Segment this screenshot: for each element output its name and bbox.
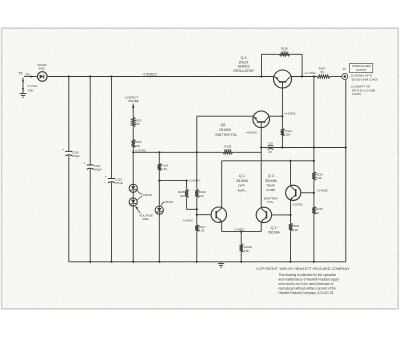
svg-text:COPYRIGHT 1959 BY HEWLETT-PACK: COPYRIGHT 1959 BY HEWLETT-PACKARD COMPAN… (256, 267, 350, 271)
node +2.6 branch (158, 180, 160, 182)
transformer winding 6.3VAC (22, 78, 38, 93)
svg-text:GRY: GRY (25, 73, 31, 76)
wire divider upper (313, 77, 315, 172)
svg-text:470µF: 470µF (72, 154, 80, 158)
node +2.6VDC (186, 180, 188, 182)
svg-text:2N169A: 2N169A (219, 128, 232, 132)
ghost bleed-through (140, 40, 360, 300)
svg-text:-1.4VDC: -1.4VDC (234, 227, 245, 231)
label R204 (292, 224, 299, 232)
label Q2 caption (268, 226, 281, 235)
svg-text:3.3K: 3.3K (199, 229, 205, 233)
label -1.4VDC (234, 227, 245, 231)
node Q5 emitter (281, 115, 283, 117)
label R113 (286, 129, 293, 137)
label Q4 caption (233, 56, 254, 73)
wire Q2 emitter down (260, 222, 262, 231)
svg-text:220: 220 (180, 194, 185, 198)
wire node to R108 (186, 181, 188, 190)
label C152 (115, 178, 123, 186)
node ground rail x290.5 (289, 261, 291, 263)
svg-text:FOL.: FOL. (267, 200, 274, 204)
node Q2 base - Q3 emitter (289, 214, 291, 216)
node Q3 collector top (289, 160, 291, 162)
node Q1 base node (196, 214, 198, 216)
svg-text:COMP.: COMP. (266, 188, 276, 192)
svg-text:+: + (83, 162, 85, 166)
resistor R106 bypass bridge (262, 53, 303, 77)
wire top rail +7.6VADC (47, 76, 342, 78)
label Q1 caption (236, 174, 249, 192)
capacitor C25 (268, 142, 274, 154)
wire R215 to ground rail (313, 214, 315, 262)
svg-text:-3.4VDC: -3.4VDC (182, 218, 193, 222)
svg-text:DIFF.: DIFF. (238, 184, 246, 188)
resistor R215 (312, 207, 315, 215)
wire column C152 (111, 77, 113, 262)
svg-text:ment and is not to be used oth: ment and is not to be used otherwise or (279, 282, 334, 286)
svg-text:EMITTER FOL.: EMITTER FOL. (215, 133, 238, 137)
wire Q1 emitter down (221, 222, 223, 232)
node +3.4VDC (313, 192, 315, 194)
wire R214-R215 (313, 180, 315, 206)
node rail-C150 (68, 75, 70, 77)
wire to R113 (281, 116, 283, 128)
svg-text:3.3K: 3.3K (292, 228, 298, 232)
capacitor C151 (83, 162, 93, 170)
svg-text:50: 50 (283, 50, 287, 54)
node divider mid (313, 146, 315, 148)
resistor R108 (185, 189, 188, 197)
label +3.4VDC (316, 189, 328, 193)
resistor R104 (158, 163, 161, 170)
note 2 signal (351, 74, 378, 82)
svg-text:REGULATOR: REGULATOR (233, 69, 254, 73)
svg-text:470µF: 470µF (115, 181, 123, 185)
svg-text:+4.8VDC: +4.8VDC (245, 131, 257, 135)
transistor Q5 (253, 111, 270, 128)
label CR101 (161, 200, 174, 206)
wire to R100A (240, 232, 242, 244)
wire R100A to ground rail (240, 252, 242, 262)
svg-text:T5: T5 (18, 72, 22, 76)
svg-text:+: + (105, 175, 107, 179)
svg-text:OIDAR TSET ROTALLICSO YCNEUQER: OIDAR TSET ROTALLICSO YCNEUQERF (145, 40, 340, 47)
wire Q5 base feed (197, 115, 253, 117)
label copyright header (256, 267, 350, 271)
wire R109 bottom (196, 198, 198, 225)
label R108 (178, 190, 185, 198)
wire detect probe arrow (132, 104, 135, 118)
svg-text:TEMP.: TEMP. (266, 184, 275, 188)
svg-text:+: + (62, 148, 64, 152)
node ref-R109 (196, 151, 198, 153)
transistor Q3 (286, 185, 301, 200)
svg-text:15K: 15K (286, 132, 291, 136)
node Q4 emitter-bridge (301, 75, 303, 77)
svg-text:220: 220 (199, 194, 204, 198)
svg-text:1K: 1K (316, 211, 320, 215)
label R203 (135, 140, 142, 148)
svg-text:Q 2: Q 2 (271, 226, 277, 230)
svg-text:Q5: Q5 (221, 123, 226, 127)
wire Q5 base column (260, 128, 262, 208)
wire feedback horizontal (261, 147, 346, 149)
svg-text:J4: J4 (342, 67, 346, 71)
node ground rail x159.3 (158, 261, 160, 263)
svg-text:GRN: GRN (28, 90, 34, 93)
node ground rail x90.2 (89, 261, 91, 263)
svg-text:LOAD): LOAD) (352, 92, 361, 96)
node rail-C151 (89, 75, 91, 77)
node ground rail x196.8 (196, 261, 198, 263)
wire column R109 upper (196, 116, 198, 189)
node emitter bus (240, 231, 242, 233)
label +2.6VDC (188, 178, 200, 182)
resistor R105 (223, 151, 233, 154)
svg-text:OUTPUT: OUTPUT (356, 69, 367, 72)
resistor R214 (312, 172, 315, 180)
svg-text:+2.6VDC: +2.6VDC (188, 178, 200, 182)
label R106 (281, 46, 288, 53)
wire zener column (132, 152, 134, 261)
svg-text:6.8K: 6.8K (244, 249, 250, 253)
wire Q3 collector (290, 161, 292, 186)
svg-text:18K: 18K (135, 122, 140, 126)
wire T5 secondary to diode with GRY label (24, 73, 38, 78)
wire Q5 emitter right (270, 115, 283, 117)
connector J4 (342, 74, 348, 80)
svg-text:PROBE: PROBE (128, 99, 139, 103)
svg-text:+4.7VDC: +4.7VDC (304, 71, 316, 75)
label -2.6VDC (292, 203, 303, 207)
svg-text:This drawing is intended for t: This drawing is intended for the operati… (279, 273, 337, 277)
svg-text:Hewlett-Packard Company. 474-: Hewlett-Packard Company. 474-101-32 (279, 291, 334, 295)
label R105 (224, 144, 231, 152)
svg-text:Q 3: Q 3 (268, 174, 274, 178)
wire Q2 base (272, 214, 291, 216)
label +7.6VADC (142, 72, 158, 76)
transformer T5 label (18, 72, 22, 76)
svg-text:+4.6VDC: +4.6VDC (284, 111, 296, 115)
node divider top (313, 160, 315, 162)
diode CR100 label (37, 63, 47, 70)
label R109 (199, 190, 206, 198)
node R108-R109 join (196, 208, 198, 210)
svg-text:CR101: CR101 (164, 200, 173, 204)
wire Q1 base (197, 214, 211, 216)
label Q5 caption (215, 123, 238, 137)
wire collector rail (222, 160, 314, 162)
wire emitter bus -1.4VDC (222, 231, 262, 233)
label VOLTAGE REF (135, 206, 153, 221)
label +4.6VDC (284, 111, 296, 115)
label +4.8VDC (245, 131, 257, 135)
transistor Q1 (211, 207, 226, 222)
node rail-C152 (110, 75, 112, 77)
label R215 (316, 207, 323, 215)
resistor R100A (240, 244, 243, 252)
ground (transformer) (20, 92, 27, 97)
node ground rail x241.2 (240, 261, 242, 263)
resistor R113 (281, 129, 284, 137)
wire Q2 collector up (260, 207, 262, 209)
ground (main) (218, 262, 224, 267)
svg-text:+1.9VDC: +1.9VDC (134, 148, 146, 152)
svg-text:and maintenance of Hewlett-Pac: and maintenance of Hewlett-Packard equip… (279, 277, 340, 281)
svg-text:UNREGULATED: UNREGULATED (352, 65, 371, 68)
capacitor C150 (62, 148, 72, 156)
wire R204 to ground rail (290, 231, 292, 262)
resistor R109 (195, 189, 198, 197)
svg-text:C25: C25 (268, 142, 274, 146)
svg-text:18K: 18K (135, 144, 140, 148)
zener CR102a (129, 184, 137, 192)
diode CR100 circle (38, 72, 48, 82)
zener CR101 (155, 206, 163, 214)
svg-text:CR102: CR102 (143, 193, 152, 197)
node Q4 base-bridge (260, 75, 262, 77)
wire R111 to ground rail (196, 231, 198, 262)
label R107 (319, 67, 326, 74)
zener CR102b (129, 198, 137, 206)
wire Q3 base (301, 192, 314, 194)
node ground rail x111.5 (110, 261, 112, 263)
node ground rail x313.9 (313, 261, 315, 263)
label J4 (342, 67, 346, 71)
label +4.7VDC (304, 71, 316, 75)
svg-text:50,000 OHM LOAD): 50,000 OHM LOAD) (352, 77, 378, 81)
label R214 (316, 172, 323, 180)
resistor R203 (132, 139, 135, 147)
resistor R204 (289, 223, 292, 230)
resistor R202 (132, 117, 135, 127)
capacitor C152 (105, 175, 115, 183)
svg-text:Q 4: Q 4 (240, 56, 246, 60)
node ground rail x133.2 (132, 261, 134, 263)
resistor R111 (195, 225, 198, 231)
wire Q1 collector up (221, 161, 223, 208)
wire +1.9VDC rail (133, 151, 261, 153)
wire R113 bottom (281, 136, 283, 148)
resistor R107 (317, 75, 330, 78)
svg-text:reproduced without written con: reproduced without written consent of th… (279, 287, 337, 291)
label R104 (161, 163, 168, 171)
wire +2.6VDC (159, 180, 186, 182)
svg-text:2.4K: 2.4K (161, 167, 167, 171)
label R111 (199, 225, 206, 233)
wire R202-R203 (132, 127, 134, 139)
node R113-feedback (281, 146, 283, 148)
transistor Q2 (256, 207, 271, 222)
transistor Q4 (274, 70, 292, 88)
svg-text:2N169A: 2N169A (268, 231, 281, 235)
wire Q4 base to Q5 emitter node (281, 88, 283, 116)
label R100A (244, 245, 253, 253)
svg-text:.05: .05 (268, 150, 272, 154)
label DETECT PROBE (125, 95, 139, 102)
note 1 10watt (351, 85, 376, 96)
wire ground rail (69, 261, 346, 263)
svg-text:6.3 VAC: 6.3 VAC (28, 84, 38, 88)
svg-text:50: 50 (320, 70, 324, 74)
wire ref to R104 (158, 152, 160, 163)
wire R108 bottom (187, 198, 197, 210)
svg-text:500K: 500K (224, 148, 231, 152)
wire CR101 to ground rail (158, 214, 160, 261)
svg-text:ROTSISER NOITCES REWOP: ROTSISER NOITCES REWOP (140, 88, 250, 94)
svg-text:5.6K: 5.6K (316, 176, 322, 180)
svg-text:-2.6VDC: -2.6VDC (292, 203, 303, 207)
wire R104 to CR101 (158, 171, 160, 207)
node +4.7VDC (313, 75, 315, 77)
wire J4 to ground rail (345, 80, 347, 262)
label -3.4VDC (182, 218, 193, 222)
svg-text:IN91: IN91 (39, 67, 46, 71)
svg-text:LEDOM DC002 REIFILPMA EGATLOV: LEDOM DC002 REIFILPMA EGATLOV (212, 54, 360, 60)
wire R203 to node 1.9VDC (132, 148, 134, 153)
label C150 (72, 150, 80, 158)
svg-text:+3.4VDC: +3.4VDC (316, 189, 328, 193)
svg-text:REF.: REF. (143, 217, 150, 221)
label CR102 (137, 190, 152, 200)
svg-text:Q 1: Q 1 (239, 174, 245, 178)
wire Q3 emitter (290, 200, 292, 224)
svg-text:2N169A: 2N169A (236, 179, 249, 183)
svg-text:+7.6VADC: +7.6VADC (142, 72, 158, 76)
svg-text:2N169A: 2N169A (265, 179, 278, 183)
label Q3 caption (264, 174, 278, 204)
label R202 (135, 118, 142, 126)
wire column C150 (68, 77, 70, 262)
label C151 (94, 164, 102, 172)
node feedback (260, 146, 262, 148)
label output box (350, 63, 373, 72)
label copyright paragraph (279, 273, 340, 295)
node +1.9VDC (132, 151, 134, 153)
wire column C151 (89, 77, 91, 262)
label +1.9VDC (134, 148, 146, 152)
node ref-R104 (158, 151, 160, 153)
svg-text:AMPL.: AMPL. (237, 188, 246, 192)
svg-text:400µF: 400µF (94, 168, 102, 172)
node J4 feedback (345, 146, 347, 148)
